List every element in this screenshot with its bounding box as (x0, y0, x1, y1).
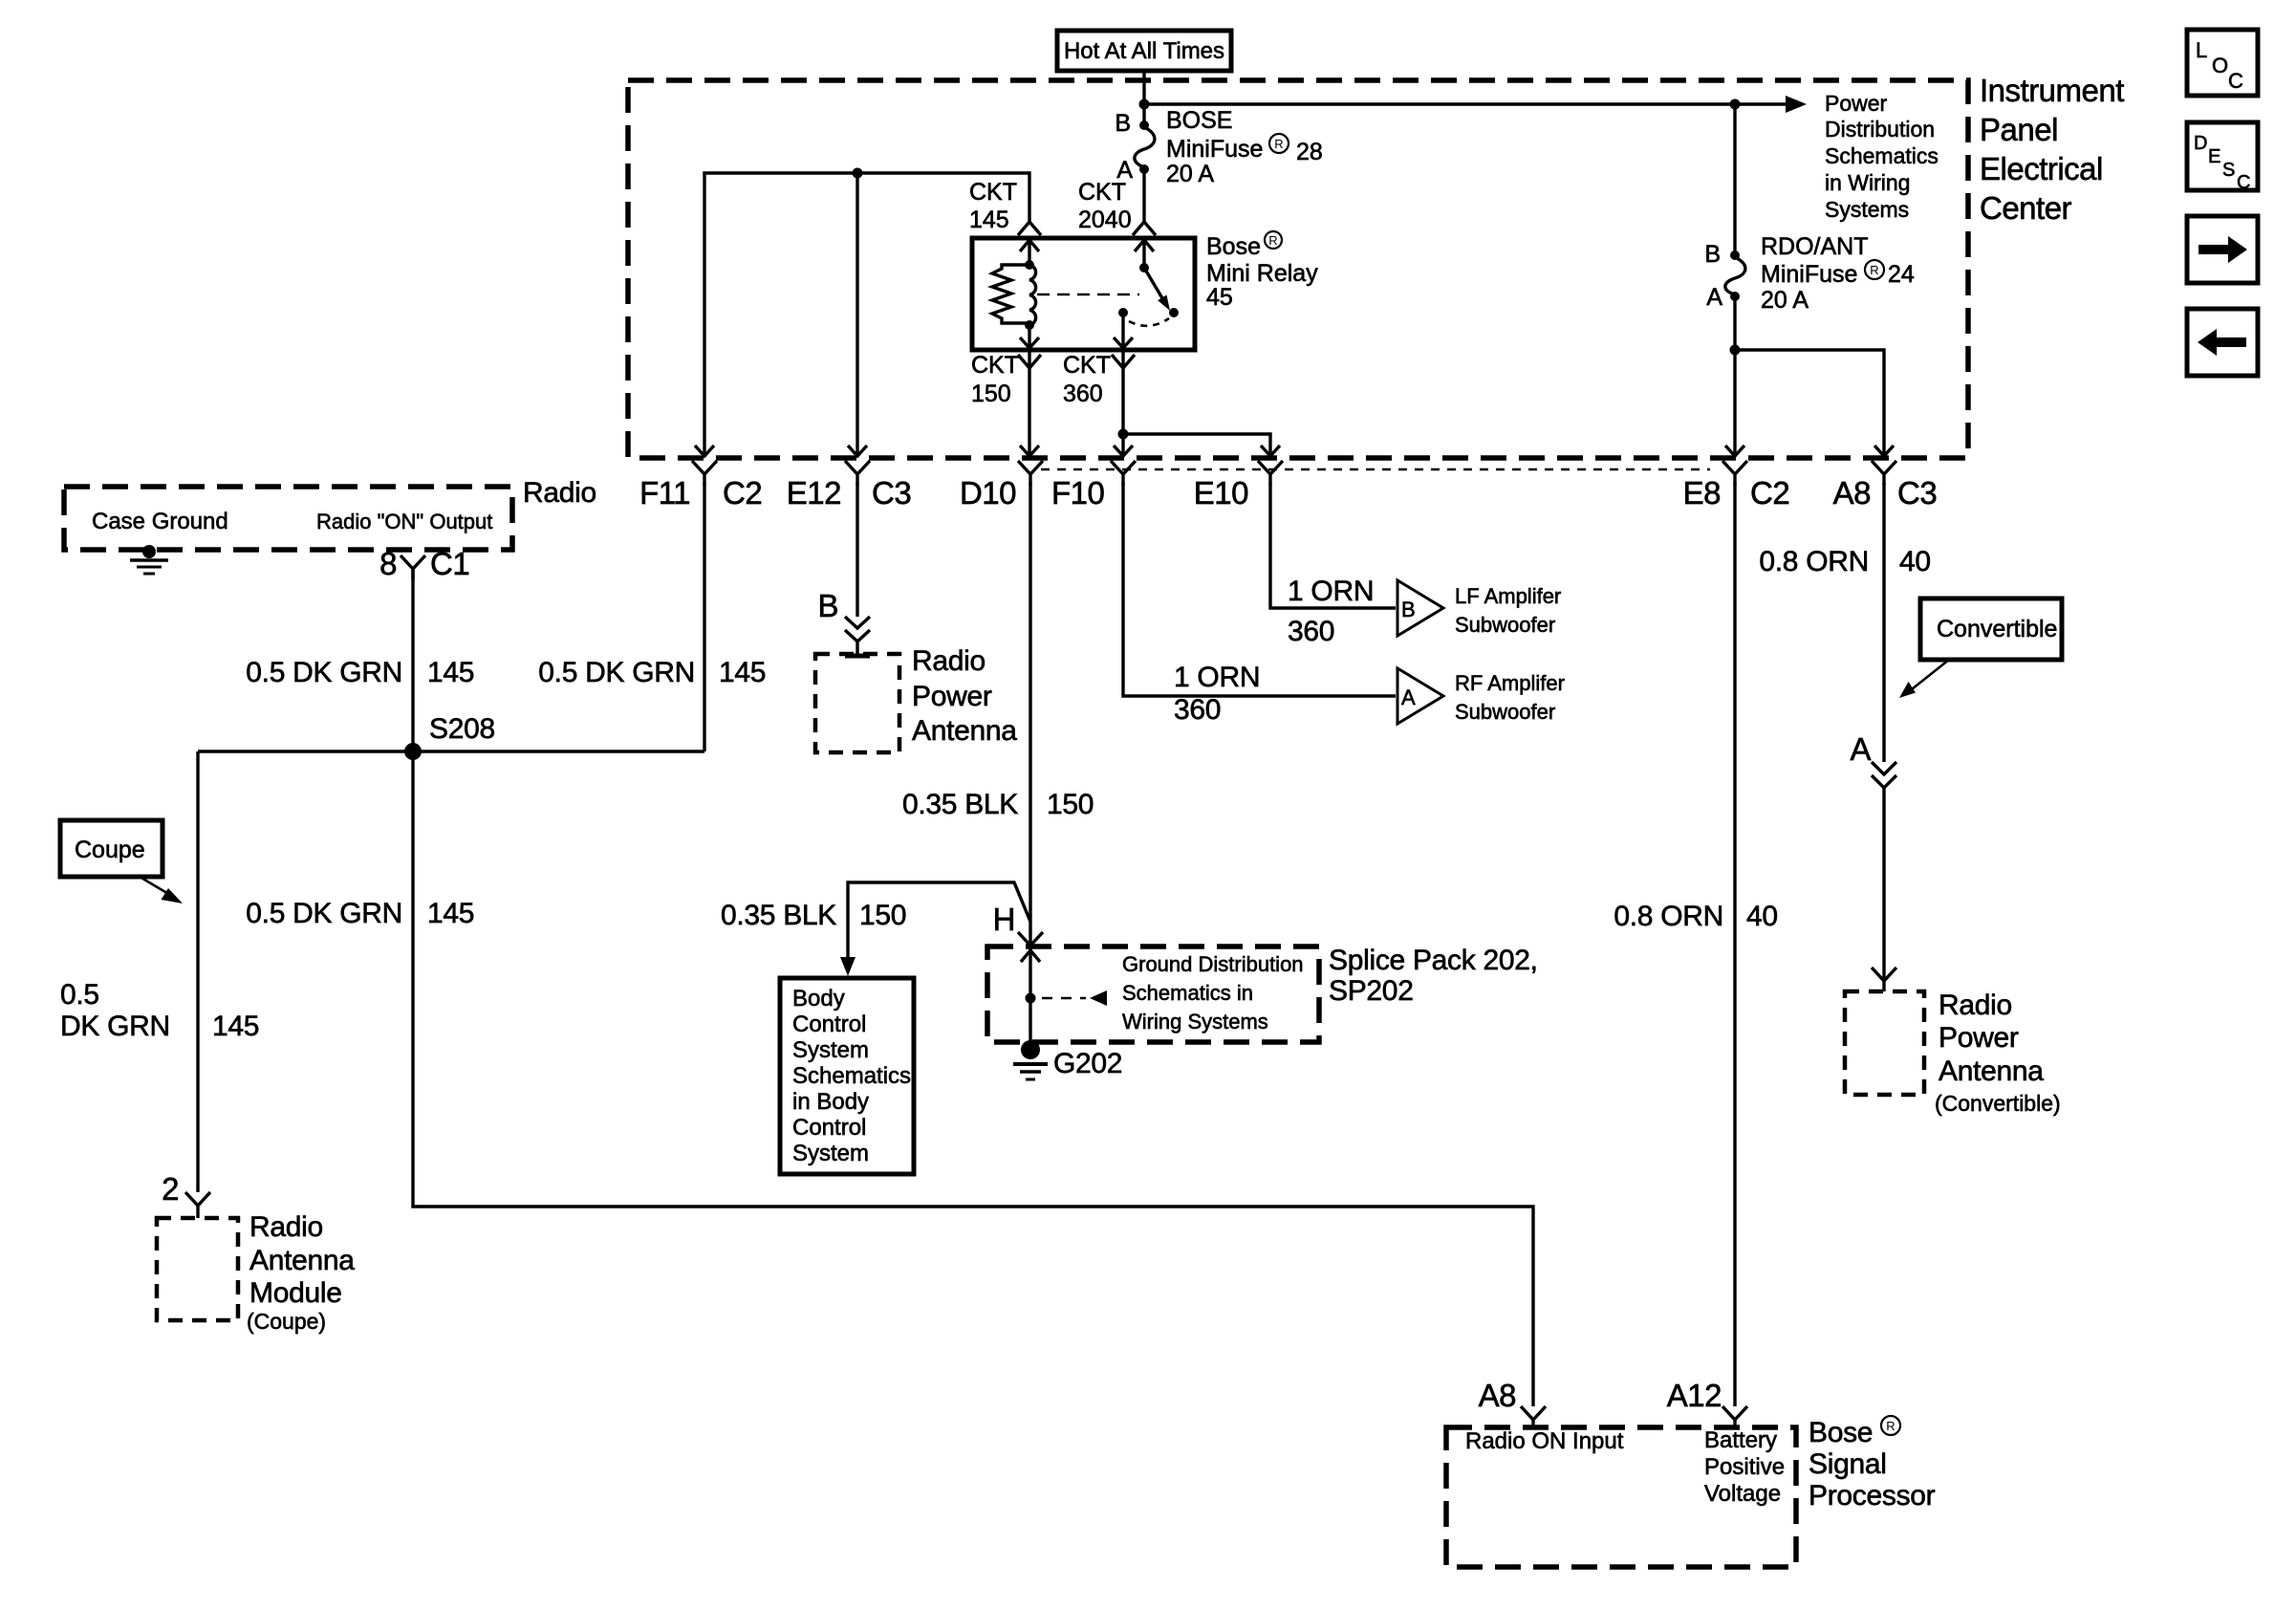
svg-text:in Wiring: in Wiring (1825, 170, 1910, 195)
amplifier triangle A: RF Amplifer Subwoofer (1397, 668, 1443, 724)
relay U45: Bose Mini Relay box (972, 238, 1195, 350)
svg-text:System: System (792, 1141, 869, 1166)
svg-text:A12: A12 (1667, 1378, 1722, 1413)
icon: left arrow box (2187, 309, 2258, 376)
radio antenna module dashed box (157, 1218, 238, 1320)
connector chevron into convertible antenna (1872, 968, 1896, 991)
svg-text:1 ORN: 1 ORN (1174, 662, 1260, 693)
svg-text:150: 150 (859, 900, 906, 931)
connector chevron C1 (401, 555, 425, 580)
connector chevron into Radio Antenna Module (185, 1192, 210, 1218)
wire: branch to A8 (1735, 350, 1884, 457)
node: junction in splice pack (1026, 993, 1036, 1004)
svg-text:Systems: Systems (1825, 197, 1909, 222)
svg-text:Power: Power (1825, 91, 1888, 116)
svg-text:R: R (1268, 233, 1277, 248)
icon: DESC box (2187, 122, 2258, 193)
svg-text:Center: Center (1980, 190, 2072, 226)
svg-text:in Body: in Body (792, 1089, 869, 1115)
svg-text:145: 145 (719, 657, 766, 688)
wire: E8 battery feed down to A12 (1733, 483, 1736, 1406)
arrowhead into body control box (840, 957, 856, 976)
svg-text:F11: F11 (639, 475, 690, 511)
svg-text:Antenna: Antenna (249, 1245, 355, 1276)
connector chevron F11 (692, 461, 717, 486)
connector chevron below relay CKT360 (1112, 355, 1135, 368)
icon: right arrow box (2187, 216, 2258, 283)
wire: hot feed down from Hot At All Times (1142, 71, 1145, 125)
svg-text:Antenna: Antenna (1939, 1055, 2044, 1087)
svg-text:0.5 DK GRN: 0.5 DK GRN (246, 898, 402, 929)
svg-text:20 A: 20 A (1761, 287, 1809, 314)
label: 0.5 / DK GRN stacked (60, 979, 259, 1042)
svg-text:C3: C3 (872, 475, 911, 511)
svg-text:Signal: Signal (1809, 1448, 1887, 1480)
svg-text:360: 360 (1063, 381, 1103, 407)
svg-text:Radio ON Input: Radio ON Input (1465, 1428, 1624, 1454)
svg-text:F10: F10 (1051, 475, 1105, 511)
svg-text:45: 45 (1206, 284, 1233, 311)
svg-text:S208: S208 (429, 713, 495, 745)
svg-text:CKT: CKT (1063, 352, 1111, 379)
svg-text:Radio "ON" Output: Radio "ON" Output (316, 510, 492, 533)
splice pack 202 dashed box (987, 946, 1319, 1042)
bose signal processor dashed box (1446, 1427, 1796, 1567)
svg-text:145: 145 (427, 898, 474, 929)
label: LF Amplifer Subwoofer (1455, 584, 1561, 637)
svg-text:Subwoofer: Subwoofer (1455, 613, 1555, 637)
relay coil exit wire with down arrow (1028, 325, 1030, 350)
svg-text:40: 40 (1746, 901, 1778, 932)
connector chevron A8 into Bose box (1521, 1406, 1546, 1427)
wire: fuse A down to E8 (1733, 298, 1736, 457)
svg-text:Power: Power (1939, 1022, 2019, 1054)
connector chevron below relay CKT150 (1018, 355, 1041, 368)
svg-text:0.5 DK GRN: 0.5 DK GRN (538, 657, 695, 688)
svg-text:A: A (1401, 685, 1416, 709)
connector chevron F10 (1111, 461, 1136, 486)
relay coil winding (1029, 265, 1036, 325)
node: junction on rail for E12 (853, 168, 863, 179)
svg-text:Radio: Radio (249, 1211, 323, 1243)
connector chevron E10 (1258, 461, 1283, 486)
wire: C3 antenna feed (convertible) (1882, 483, 1885, 762)
wire: F10 to RF amplifier (1123, 483, 1396, 696)
svg-text:Module: Module (249, 1277, 342, 1309)
svg-text:Electrical: Electrical (1980, 151, 2103, 186)
svg-text:SP202: SP202 (1329, 975, 1414, 1007)
svg-text:0.35 BLK: 0.35 BLK (902, 789, 1018, 820)
svg-text:O: O (2212, 54, 2228, 77)
svg-text:H: H (993, 902, 1015, 937)
svg-text:Instrument: Instrument (1980, 73, 2124, 108)
svg-text:2040: 2040 (1078, 207, 1132, 233)
wire: CKT 360 down to F10 (1121, 350, 1124, 457)
wire: E10 to LF amplifier (1270, 483, 1396, 608)
svg-text:(Coupe): (Coupe) (247, 1309, 326, 1334)
node: junction CKT360 branch to E10 (1118, 429, 1129, 440)
svg-text:C: C (2237, 172, 2250, 193)
wire: hot bus to right fuse (1144, 102, 1735, 105)
arrowhead E12 at connector row (848, 446, 867, 456)
svg-text:Power: Power (912, 681, 992, 712)
svg-text:CKT: CKT (971, 352, 1019, 379)
svg-text:G202: G202 (1053, 1048, 1122, 1079)
svg-text:MiniFuse: MiniFuse (1761, 261, 1857, 288)
inline connector double chevron at B (845, 617, 870, 654)
svg-text:Schematics in: Schematics in (1122, 981, 1253, 1005)
wire: radio ON output down to S208 (411, 569, 414, 751)
svg-text:R: R (1886, 1419, 1895, 1433)
svg-text:S: S (2222, 160, 2235, 181)
terminal tick inside antenna box (845, 654, 870, 659)
wire: CKT 2040 fuse to relay (1142, 171, 1145, 222)
svg-text:Battery: Battery (1704, 1427, 1777, 1453)
radio power antenna (convertible) dashed box (1845, 991, 1924, 1095)
label: Ground Distribution Schematics in Wiring Systems (1122, 952, 1304, 1033)
wire: branch to body control system (848, 882, 1030, 957)
svg-text:2: 2 (162, 1171, 179, 1207)
node: junction branch to A8 (1730, 345, 1741, 356)
relay switch input wire with up arrow (1142, 238, 1145, 268)
svg-text:Schematics: Schematics (1825, 143, 1939, 168)
inline connector double chevron at A (1872, 762, 1896, 788)
box: Hot At All Times (1057, 31, 1231, 71)
wire: D10 ground drop (1029, 483, 1031, 945)
svg-text:System: System (792, 1037, 869, 1063)
arrow from Coupe box to wire (140, 877, 170, 895)
svg-text:Coupe: Coupe (75, 837, 145, 863)
relay switch arm with arrowhead (1144, 268, 1162, 298)
svg-text:A: A (1706, 284, 1722, 311)
svg-text:Ground Distribution: Ground Distribution (1122, 952, 1304, 976)
svg-text:Radio: Radio (912, 645, 986, 677)
svg-text:C1: C1 (430, 546, 469, 581)
wire: branch to E10 (1123, 434, 1270, 457)
svg-text:Control: Control (792, 1115, 866, 1141)
svg-text:Antenna: Antenna (912, 715, 1017, 747)
svg-text:Radio: Radio (1939, 990, 2012, 1021)
wire: S208 rail (198, 750, 704, 752)
label: Power Distribution Schematics in Wiring Systems (1825, 91, 1939, 222)
relay actuation dashed link (1037, 294, 1139, 296)
wire: to radio power antenna convertible (1882, 788, 1885, 978)
svg-text:Distribution: Distribution (1825, 117, 1935, 141)
svg-text:Body: Body (792, 986, 845, 1012)
wire: S208 down then right to Bose A8 (413, 751, 1533, 1406)
svg-text:BOSE: BOSE (1166, 107, 1232, 134)
connector chevron E8 (1722, 461, 1747, 486)
svg-text:C2: C2 (723, 475, 762, 511)
svg-text:360: 360 (1288, 616, 1334, 647)
svg-text:Control: Control (792, 1012, 866, 1037)
arrowhead F11 at connector row (695, 446, 714, 456)
svg-text:D: D (2194, 133, 2207, 154)
fuse F28: BOSE MiniFuse 28 20 A (1115, 107, 1323, 187)
svg-text:150: 150 (971, 381, 1011, 407)
label: Bose (R) Mini Relay 45 (1206, 231, 1318, 311)
label: Radio Power Antenna (Convertible) (1935, 990, 2061, 1116)
box: Convertible (1920, 598, 2062, 660)
wire: ground wire inside splice pack (1029, 946, 1031, 1050)
svg-text:E8: E8 (1683, 475, 1721, 511)
svg-text:145: 145 (212, 1011, 259, 1042)
svg-text:E: E (2208, 146, 2220, 167)
up arrowhead inside splice pack (1021, 950, 1040, 962)
svg-text:0.8 ORN: 0.8 ORN (1759, 546, 1869, 577)
label: Splice Pack 202, SP202 (1329, 945, 1538, 1007)
svg-text:C2: C2 (1750, 475, 1789, 511)
svg-text:20 A: 20 A (1166, 161, 1214, 187)
svg-text:145: 145 (427, 657, 474, 688)
svg-text:0.5: 0.5 (60, 979, 99, 1011)
amplifier triangle B: LF Amplifer Subwoofer (1397, 580, 1443, 636)
connector chevron A12 into Bose box (1722, 1406, 1747, 1427)
label: Radio Antenna Module (Coupe) (247, 1211, 355, 1334)
ground: radio case ground symbol (130, 545, 168, 574)
svg-text:C3: C3 (1897, 475, 1937, 511)
svg-text:Positive: Positive (1704, 1454, 1785, 1480)
svg-text:Schematics: Schematics (792, 1063, 911, 1089)
svg-text:Case Ground: Case Ground (92, 509, 228, 534)
svg-text:Processor: Processor (1809, 1480, 1936, 1512)
svg-text:Subwoofer: Subwoofer (1455, 700, 1555, 724)
splice S208 (404, 743, 422, 760)
svg-text:RDO/ANT: RDO/ANT (1761, 233, 1869, 260)
connector chevron E12 (845, 461, 870, 486)
dashed reference arrow to Ground Distribution (1042, 997, 1086, 1000)
label: CKT 150 (971, 352, 1019, 407)
radio dashed box (64, 487, 512, 550)
svg-text:A8: A8 (1479, 1378, 1516, 1413)
svg-text:Radio: Radio (523, 477, 596, 509)
label: Instrument Panel Electrical Center (1980, 73, 2124, 226)
svg-text:0.5 DK GRN: 0.5 DK GRN (246, 657, 402, 688)
svg-text:Mini Relay: Mini Relay (1206, 260, 1318, 287)
svg-text:B: B (817, 588, 838, 623)
ground G202 (1013, 1040, 1048, 1079)
relay common contact (1118, 308, 1128, 317)
svg-text:LF Amplifer: LF Amplifer (1455, 584, 1561, 608)
svg-text:L: L (2196, 38, 2207, 62)
svg-text:B: B (1115, 110, 1131, 137)
relay resistor (parallel with coil) (992, 265, 1029, 323)
connector C2 thin dashed boundary (1041, 468, 1710, 471)
svg-text:(Convertible): (Convertible) (1935, 1091, 2061, 1116)
svg-text:MiniFuse: MiniFuse (1166, 136, 1263, 163)
svg-text:8: 8 (379, 546, 397, 581)
label: CKT 145 (969, 179, 1017, 233)
svg-text:150: 150 (1047, 789, 1094, 820)
svg-text:0.8 ORN: 0.8 ORN (1614, 901, 1723, 932)
wire: E12/C3 drop to Radio Power Antenna (856, 483, 858, 617)
svg-text:B: B (1704, 241, 1721, 268)
radio power antenna dashed box (815, 654, 899, 752)
svg-text:Wiring Systems: Wiring Systems (1122, 1010, 1268, 1033)
svg-text:CKT: CKT (1078, 179, 1126, 206)
connector chevron A8 (1872, 461, 1896, 486)
wire: rail feeding F11 / E12 / CKT145 (704, 173, 1029, 457)
fuse F24: RDO/ANT MiniFuse 24 20 A (1704, 104, 1915, 314)
svg-text:RF Amplifer: RF Amplifer (1455, 671, 1565, 695)
svg-text:B: B (1401, 598, 1416, 621)
relay contact dashed arc (1129, 318, 1169, 326)
icon: LOC box (2187, 30, 2258, 96)
svg-text:A8: A8 (1833, 475, 1871, 511)
wire: arrow to Power Distribution Schematics (1735, 102, 1787, 105)
arrow from Convertible box to wire (1912, 660, 1949, 689)
svg-text:A: A (1850, 731, 1871, 767)
node: junction of hot bus (1139, 99, 1150, 110)
svg-text:Bose: Bose (1206, 233, 1261, 260)
node: junction at right fuse top (1730, 99, 1741, 110)
connector chevron H into splice pack (1018, 932, 1043, 946)
svg-text:Hot At All Times: Hot At All Times (1064, 38, 1224, 64)
label: RF Amplifer Subwoofer (1455, 671, 1565, 724)
svg-text:E10: E10 (1194, 475, 1248, 511)
svg-text:28: 28 (1296, 139, 1323, 165)
label: Radio Power Antenna (912, 645, 1017, 747)
svg-text:CKT: CKT (969, 179, 1017, 206)
svg-text:DK GRN: DK GRN (60, 1011, 170, 1042)
svg-text:R: R (1870, 263, 1878, 277)
wire: F11 drop to S208 rail (703, 483, 705, 751)
label: CKT 360 (1063, 352, 1111, 407)
box: Coupe (60, 820, 162, 877)
label: CKT 2040 (1078, 179, 1132, 233)
svg-text:Panel: Panel (1980, 112, 2058, 147)
relay coil terminal wire with up arrow (1028, 238, 1030, 265)
svg-text:40: 40 (1899, 546, 1931, 577)
svg-text:145: 145 (969, 207, 1009, 233)
connector chevron D10 (1018, 461, 1043, 486)
svg-text:360: 360 (1174, 694, 1221, 726)
svg-text:C: C (2228, 69, 2243, 93)
label: Battery Positive Voltage (1704, 1427, 1785, 1507)
svg-text:24: 24 (1888, 261, 1915, 288)
label: Bose (R) Signal Processor (1809, 1416, 1936, 1512)
instrument panel electrical center dashed box (628, 80, 1968, 458)
wire: E12 drop (856, 173, 858, 457)
svg-text:Splice Pack 202,: Splice Pack 202, (1329, 945, 1538, 976)
svg-text:R: R (1274, 137, 1283, 151)
svg-text:D10: D10 (960, 475, 1016, 511)
connector chevron at relay top CKT2040 (1133, 222, 1156, 235)
box: Body Control System Schematics reference (780, 978, 914, 1174)
wire: CKT 150 down to D10 (1028, 350, 1030, 457)
svg-text:E12: E12 (787, 475, 841, 511)
connector chevron at relay top CKT145 (1018, 222, 1041, 235)
svg-text:Bose: Bose (1809, 1417, 1873, 1448)
svg-text:0.35 BLK: 0.35 BLK (721, 900, 836, 931)
svg-text:Convertible: Convertible (1937, 616, 2057, 642)
svg-text:1 ORN: 1 ORN (1288, 576, 1374, 607)
svg-text:Voltage: Voltage (1704, 1481, 1781, 1507)
wire: coupe branch down (196, 751, 199, 1192)
